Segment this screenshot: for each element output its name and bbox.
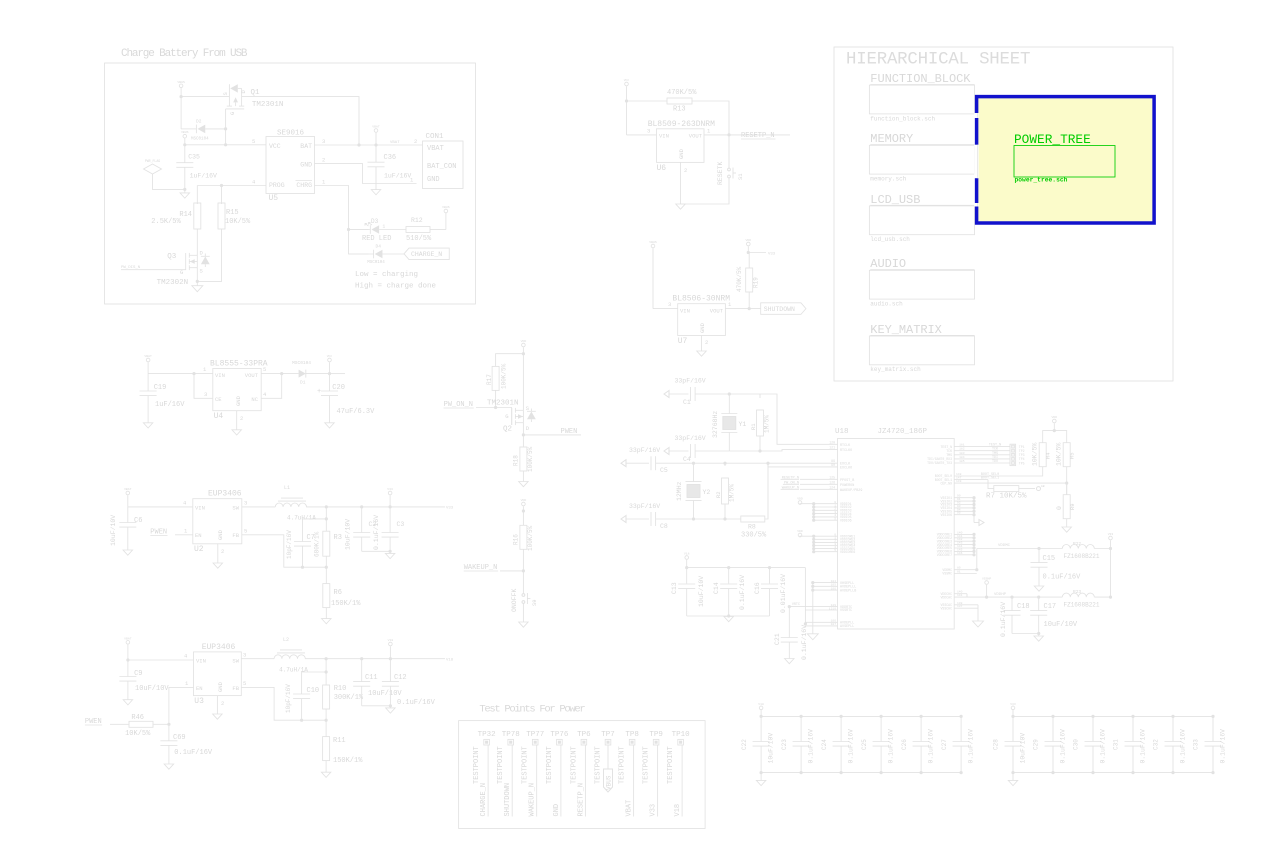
svg-text:function_block.sch: function_block.sch xyxy=(870,115,935,122)
svg-text:81: 81 xyxy=(957,571,961,574)
wire xyxy=(522,423,525,447)
svg-text:C18: C18 xyxy=(1017,603,1030,611)
capacitor C18 xyxy=(1000,597,1030,637)
svg-text:1uF/16V: 1uF/16V xyxy=(384,173,411,180)
svg-text:VBAT: VBAT xyxy=(124,636,132,640)
svg-text:32768Hz: 32768Hz xyxy=(712,411,719,438)
svg-text:C30: C30 xyxy=(1073,739,1080,750)
svg-text:33pF/16V: 33pF/16V xyxy=(675,435,706,442)
svg-text:MSC0104: MSC0104 xyxy=(292,360,311,366)
svg-text:CON1: CON1 xyxy=(426,133,445,141)
hierarchical sheet MEMORY xyxy=(869,132,974,182)
capacitor C6 xyxy=(110,507,142,550)
wire EXCLK xyxy=(768,463,838,467)
svg-text:150K/1%: 150K/1% xyxy=(333,757,363,765)
testpoint TP8 VBAT xyxy=(619,731,639,817)
svg-text:S1: S1 xyxy=(737,173,744,180)
pin 2 xyxy=(414,138,417,145)
svg-text:VOUT: VOUT xyxy=(245,372,259,379)
svg-text:0.1uF/16V: 0.1uF/16V xyxy=(801,625,808,660)
capacitor C2 xyxy=(345,507,377,551)
svg-text:VIN: VIN xyxy=(680,308,690,315)
power VDD xyxy=(521,498,527,525)
svg-text:183: 183 xyxy=(959,452,965,455)
svg-text:TP9: TP9 xyxy=(649,731,663,739)
svg-text:C8: C8 xyxy=(660,523,668,530)
border overlap patch xyxy=(974,113,979,207)
resistor R6 xyxy=(323,567,361,618)
power VBUS xyxy=(177,80,185,97)
svg-text:5: 5 xyxy=(244,528,247,535)
svg-text:R15: R15 xyxy=(226,209,239,217)
wire xyxy=(1110,549,1112,598)
wire xyxy=(627,100,668,102)
svg-text:Low = charging: Low = charging xyxy=(355,271,418,279)
wire xyxy=(359,141,423,147)
net flag CHARGE_N xyxy=(404,248,449,259)
power flag PWR_FLAG xyxy=(144,159,185,189)
power VCC xyxy=(327,354,333,374)
svg-text:WAKEUP_N: WAKEUP_N xyxy=(529,783,537,817)
capacitor C36 xyxy=(368,145,412,189)
svg-text:CHARGE_N: CHARGE_N xyxy=(411,251,442,258)
capacitor C9 xyxy=(119,660,169,700)
svg-text:MEMORY: MEMORY xyxy=(870,132,913,146)
ground xyxy=(213,563,223,568)
net label WAKEUP_N xyxy=(464,564,525,573)
power V33 xyxy=(387,487,393,507)
svg-text:Q3: Q3 xyxy=(167,253,177,261)
svg-text:470K/5%: 470K/5% xyxy=(736,266,743,292)
svg-text:CE: CE xyxy=(215,396,222,403)
capacitor C21 xyxy=(774,625,808,660)
svg-text:V18: V18 xyxy=(684,552,690,556)
svg-text:149: 149 xyxy=(956,480,962,483)
wire GND pin xyxy=(681,162,688,204)
wire xyxy=(305,657,454,662)
svg-text:EXCLKO: EXCLKO xyxy=(840,466,852,470)
inductor L2 xyxy=(274,637,308,674)
chip left pins VDDCORE xyxy=(797,529,855,554)
svg-text:4: 4 xyxy=(252,179,256,186)
svg-text:MSC0104: MSC0104 xyxy=(367,261,385,265)
ground xyxy=(123,550,133,555)
svg-text:MSC0104: MSC0104 xyxy=(191,138,209,142)
svg-text:TESTPOINT: TESTPOINT xyxy=(667,746,675,784)
svg-text:VSSIO6: VSSIO6 xyxy=(941,513,953,517)
capacitor C3 xyxy=(373,507,404,551)
svg-text:2: 2 xyxy=(221,548,224,555)
svg-text:VBAT: VBAT xyxy=(144,354,152,358)
text note xyxy=(355,271,418,279)
net label PWEN xyxy=(523,428,581,436)
svg-text:5: 5 xyxy=(252,138,255,145)
svg-text:1: 1 xyxy=(322,179,326,186)
svg-text:VBUS: VBUS xyxy=(181,130,189,134)
wire pin 4 xyxy=(197,179,266,188)
svg-text:memory.sch: memory.sch xyxy=(870,176,906,183)
svg-text:VDD: VDD xyxy=(797,529,803,533)
svg-text:TP8: TP8 xyxy=(625,731,639,739)
switch S1 RESETK xyxy=(717,161,744,185)
sheet name POWER_TREE xyxy=(1014,132,1091,147)
svg-text:148: 148 xyxy=(956,473,962,476)
resistor R46 xyxy=(125,714,169,738)
svg-text:137: 137 xyxy=(957,605,963,608)
capacitor C12 xyxy=(382,659,436,707)
svg-text:V33: V33 xyxy=(446,507,454,511)
svg-text:LCD_USB: LCD_USB xyxy=(870,193,920,207)
svg-text:Y1: Y1 xyxy=(739,421,747,428)
svg-text:Q2: Q2 xyxy=(503,426,512,434)
section border box xyxy=(459,721,705,829)
resistor R7 xyxy=(986,480,1045,501)
ground xyxy=(785,659,795,664)
net label PW_ON_N xyxy=(444,401,498,409)
svg-text:RTCLKO: RTCLKO xyxy=(840,449,852,453)
chip right pins VDDCOREr xyxy=(937,531,976,557)
wire xyxy=(148,366,213,374)
svg-text:10uF/10V: 10uF/10V xyxy=(368,690,402,698)
svg-text:TP6: TP6 xyxy=(577,731,591,739)
wire pin 3 xyxy=(315,138,361,147)
svg-text:V18: V18 xyxy=(388,638,394,642)
svg-text:CHARGE_N: CHARGE_N xyxy=(480,783,488,817)
wire gate xyxy=(496,408,512,426)
testpoint TP77 WAKEUP_N xyxy=(522,731,545,817)
IC U5 SE9016 body xyxy=(266,130,315,204)
svg-text:PWR_FLAG: PWR_FLAG xyxy=(145,159,160,163)
svg-text:HIERARCHICAL SHEET: HIERARCHICAL SHEET xyxy=(846,51,1030,70)
diode D1 xyxy=(292,360,331,386)
svg-text:126: 126 xyxy=(829,480,835,484)
svg-text:C5: C5 xyxy=(660,467,668,474)
svg-text:TESTPOINT: TESTPOINT xyxy=(619,746,627,784)
svg-text:1uF/16V: 1uF/16V xyxy=(190,172,217,179)
svg-text:VRTC: VRTC xyxy=(792,603,800,607)
resistor R8 xyxy=(741,462,770,540)
svg-text:VCC: VCC xyxy=(327,354,333,358)
svg-text:VDD: VDD xyxy=(746,238,752,242)
svg-text:VBUS: VBUS xyxy=(177,80,185,84)
power VBAT xyxy=(144,354,152,374)
svg-text:AVDEPLLB: AVDEPLLB xyxy=(840,589,856,593)
power VDD xyxy=(1052,415,1058,432)
ground xyxy=(371,190,381,195)
svg-text:0.1uF/16V: 0.1uF/16V xyxy=(1059,729,1066,764)
svg-text:R7 10K/5%: R7 10K/5% xyxy=(986,493,1027,501)
power VBUS xyxy=(649,240,657,309)
wire VDDMC rail xyxy=(977,544,1063,550)
capacitor C4 xyxy=(683,444,729,463)
svg-text:C3: C3 xyxy=(397,521,405,528)
svg-text:3: 3 xyxy=(668,301,671,308)
svg-text:TDO/GANT0_TX3: TDO/GANT0_TX3 xyxy=(927,461,952,465)
IC U18 JZ4720_186P xyxy=(835,428,954,629)
svg-text:VDDCORE7: VDDCORE7 xyxy=(937,553,952,557)
svg-text:VSSMC: VSSMC xyxy=(942,572,952,576)
svg-text:GND: GND xyxy=(217,529,224,540)
svg-text:0.1uF/16V: 0.1uF/16V xyxy=(739,575,746,610)
svg-text:10uF/10V: 10uF/10V xyxy=(345,519,352,550)
svg-text:0.1uF/16V: 0.1uF/16V xyxy=(887,729,894,764)
svg-text:1M/5%: 1M/5% xyxy=(764,415,771,433)
svg-text:330/5%: 330/5% xyxy=(741,532,767,540)
svg-text:C14: C14 xyxy=(713,582,720,594)
svg-text:VSSHP: VSSHP xyxy=(982,577,991,581)
svg-text:D4: D4 xyxy=(376,244,382,250)
power VDD xyxy=(521,339,527,410)
svg-text:2: 2 xyxy=(240,415,243,422)
IC U4 BL8555-33PRA xyxy=(210,360,268,422)
net stub xyxy=(675,435,706,442)
wire xyxy=(496,354,524,367)
switch S9 ONOFFK xyxy=(511,571,538,622)
svg-text:V18: V18 xyxy=(758,702,764,706)
testpoint TP7 VBUS xyxy=(595,731,615,792)
IC U6 BL8509-263DNRM xyxy=(648,120,715,173)
net label PW_DIS_N xyxy=(121,266,186,270)
open arrow xyxy=(621,460,649,467)
wire xyxy=(681,182,730,204)
svg-text:R11: R11 xyxy=(333,737,346,745)
svg-text:L1: L1 xyxy=(284,485,290,491)
wire GND pin xyxy=(702,336,709,352)
capacitor C8 xyxy=(651,512,741,530)
resistor R19 xyxy=(736,253,760,311)
svg-text:0.01uF/16V: 0.01uF/16V xyxy=(780,574,787,613)
svg-text:CHRG: CHRG xyxy=(296,182,312,189)
svg-text:BL8506-30NRM: BL8506-30NRM xyxy=(672,295,730,304)
svg-text:510/5%: 510/5% xyxy=(406,235,432,243)
svg-text:VDD: VDD xyxy=(797,497,803,501)
capacitor C17 xyxy=(1030,597,1078,636)
capacitor C19 xyxy=(140,374,186,423)
wire xyxy=(760,394,838,444)
svg-text:C35: C35 xyxy=(188,154,200,161)
svg-text:lcd_usb.sch: lcd_usb.sch xyxy=(870,236,910,243)
capacitor C14 xyxy=(713,568,746,616)
svg-text:R10: R10 xyxy=(334,685,347,693)
wire xyxy=(325,507,328,532)
svg-text:D1: D1 xyxy=(300,380,306,386)
chip left pins reset group xyxy=(781,475,863,493)
svg-text:U18: U18 xyxy=(835,428,849,436)
svg-text:10K/5%: 10K/5% xyxy=(1032,442,1039,466)
capacitor bank C28-C33 xyxy=(993,702,1227,786)
wire xyxy=(728,135,730,164)
svg-text:TM2301N: TM2301N xyxy=(487,400,519,408)
wire xyxy=(1012,632,1040,635)
svg-text:TESTPOINT: TESTPOINT xyxy=(473,746,481,784)
wire xyxy=(185,144,266,146)
chip left pins VDDIO xyxy=(797,497,851,523)
svg-text:EN: EN xyxy=(195,532,202,539)
svg-text:D: D xyxy=(200,250,204,257)
svg-text:PWEN: PWEN xyxy=(561,428,578,436)
svg-text:C6: C6 xyxy=(134,517,142,525)
svg-text:GND: GND xyxy=(678,148,685,159)
chip left pins PLL xyxy=(807,580,856,640)
net stub xyxy=(675,378,706,385)
wire SW xyxy=(242,500,275,507)
svg-text:10pF/16V: 10pF/16V xyxy=(285,684,292,713)
testpoint TP6 RESETP_N xyxy=(570,731,591,817)
capacitor C11 xyxy=(353,659,402,706)
capacitor C69 xyxy=(160,724,213,764)
svg-text:SHUTDOWN: SHUTDOWN xyxy=(504,783,512,817)
svg-text:R14: R14 xyxy=(179,211,192,219)
svg-text:4: 4 xyxy=(184,653,188,660)
svg-text:TM2301N: TM2301N xyxy=(252,101,284,109)
ground xyxy=(1034,636,1044,641)
chip left pins RTC xyxy=(789,603,852,613)
wire pin 2 xyxy=(315,157,417,184)
svg-text:V33: V33 xyxy=(768,253,776,257)
svg-text:100K/5%: 100K/5% xyxy=(527,525,534,551)
svg-text:184: 184 xyxy=(959,456,965,459)
svg-text:C4: C4 xyxy=(683,456,691,463)
resistor R16 xyxy=(513,525,535,571)
svg-text:ONOFFK: ONOFFK xyxy=(511,588,518,612)
svg-text:C27: C27 xyxy=(941,739,948,750)
wire xyxy=(128,500,193,507)
wire xyxy=(128,653,194,661)
svg-text:R16: R16 xyxy=(513,534,520,545)
svg-text:VDDIO6: VDDIO6 xyxy=(840,518,852,522)
svg-text:power_tree.sch: power_tree.sch xyxy=(1015,177,1068,184)
wire xyxy=(224,127,227,146)
svg-text:VOUT: VOUT xyxy=(710,308,724,315)
svg-text:TP78: TP78 xyxy=(502,731,520,739)
svg-text:VBUS: VBUS xyxy=(606,775,613,790)
svg-text:185: 185 xyxy=(959,460,965,463)
svg-text:C12: C12 xyxy=(394,674,407,682)
wire VOUT xyxy=(704,128,790,137)
svg-text:VBUS: VBUS xyxy=(649,240,657,244)
net label PWEN xyxy=(150,528,193,537)
svg-text:High = charge done: High = charge done xyxy=(355,283,436,291)
resistor R12 xyxy=(406,213,446,243)
svg-text:3: 3 xyxy=(244,500,247,507)
svg-text:C26: C26 xyxy=(901,739,908,750)
wire GND pin2 xyxy=(237,411,244,430)
wire xyxy=(653,301,678,309)
svg-text:Y2: Y2 xyxy=(703,489,711,496)
testpoint TP10 V18 xyxy=(667,731,690,817)
svg-text:key_matrix.sch: key_matrix.sch xyxy=(870,366,921,373)
svg-text:0.1uF/16V: 0.1uF/16V xyxy=(373,515,380,550)
capacitor C13 xyxy=(671,568,705,616)
svg-text:R6: R6 xyxy=(334,589,342,597)
svg-text:C36: C36 xyxy=(384,154,397,162)
net label PWEN xyxy=(85,718,129,726)
svg-text:NC: NC xyxy=(251,396,258,403)
svg-text:4: 4 xyxy=(183,500,187,507)
svg-text:10uF/10V: 10uF/10V xyxy=(698,576,705,607)
wire xyxy=(347,228,369,231)
svg-text:D2: D2 xyxy=(196,119,202,125)
svg-text:121: 121 xyxy=(829,446,835,450)
svg-text:120: 120 xyxy=(829,440,835,444)
wire xyxy=(306,505,454,510)
chip right pins TEST xyxy=(927,444,1010,466)
svg-text:U2: U2 xyxy=(194,545,204,554)
capacitor bank C22-C27 xyxy=(741,702,975,786)
svg-text:VSSCHC: VSSCHC xyxy=(941,606,953,610)
wire xyxy=(788,605,791,638)
svg-text:EN: EN xyxy=(196,685,203,692)
hierarchical sheet LCD_USB xyxy=(869,193,974,243)
svg-text:33pF/16V: 33pF/16V xyxy=(675,378,706,385)
power VBAT xyxy=(124,487,132,507)
ground xyxy=(1034,586,1044,591)
svg-text:106: 106 xyxy=(831,620,837,623)
ground xyxy=(143,423,153,428)
svg-text:5: 5 xyxy=(834,549,836,552)
svg-text:33pF/16V: 33pF/16V xyxy=(629,503,660,510)
IC U2 EUP3406 xyxy=(193,490,242,554)
resistor R1 xyxy=(750,394,771,451)
svg-text:EUP3406: EUP3406 xyxy=(208,490,242,499)
svg-text:V18: V18 xyxy=(446,659,454,663)
wire VOUT xyxy=(725,301,760,309)
svg-text:2: 2 xyxy=(684,167,687,174)
svg-text:1: 1 xyxy=(203,366,207,373)
svg-text:R46: R46 xyxy=(131,714,144,722)
svg-text:GND: GND xyxy=(553,804,561,817)
ground xyxy=(386,706,396,713)
svg-text:VDDCORE6: VDDCORE6 xyxy=(840,550,855,554)
capacitor C5 xyxy=(651,456,838,474)
svg-text:2.5K/5%: 2.5K/5% xyxy=(151,218,181,226)
chip right pins VSSIO xyxy=(941,495,984,526)
svg-text:BL8555-33PRA: BL8555-33PRA xyxy=(210,360,268,369)
ground xyxy=(322,619,332,624)
section border box xyxy=(834,47,1173,381)
wire SW xyxy=(241,651,274,658)
svg-text:0.1uF/16V: 0.1uF/16V xyxy=(1043,574,1082,582)
svg-text:100K/5%: 100K/5% xyxy=(501,363,508,389)
svg-text:G: G xyxy=(505,413,508,420)
svg-text:POWERON: POWERON xyxy=(840,484,854,488)
wire EN xyxy=(167,680,193,726)
capacitor C16 xyxy=(754,568,787,616)
svg-text:10K/5%: 10K/5% xyxy=(225,218,251,226)
svg-text:TM2302N: TM2302N xyxy=(157,279,189,287)
svg-text:V18: V18 xyxy=(674,804,682,817)
ground xyxy=(123,700,132,705)
svg-text:VDD: VDD xyxy=(521,339,527,343)
wire pin 1 CHRG xyxy=(315,179,349,230)
section title Test Points For Power xyxy=(479,704,585,716)
svg-text:VIN: VIN xyxy=(196,658,206,665)
svg-text:0.1uF/16V: 0.1uF/16V xyxy=(1139,729,1146,764)
svg-text:2: 2 xyxy=(414,138,417,145)
wire FB loop xyxy=(242,528,328,569)
svg-text:5: 5 xyxy=(834,518,836,521)
ferrite bead R23 xyxy=(1062,589,1112,609)
testpoint TP78 SHUTDOWN xyxy=(497,731,520,817)
svg-text:AVSEPLL: AVSEPLL xyxy=(840,625,854,629)
ferrite bead R22 xyxy=(1062,541,1112,560)
svg-text:FZ1608B221: FZ1608B221 xyxy=(1064,553,1100,560)
power V33 xyxy=(1108,532,1114,549)
crystal Y1 32768Hz xyxy=(712,394,746,451)
hierarchical sheet POWER_TREE highlighted xyxy=(977,97,1155,223)
svg-text:D3: D3 xyxy=(371,218,379,225)
wire xyxy=(242,97,359,145)
